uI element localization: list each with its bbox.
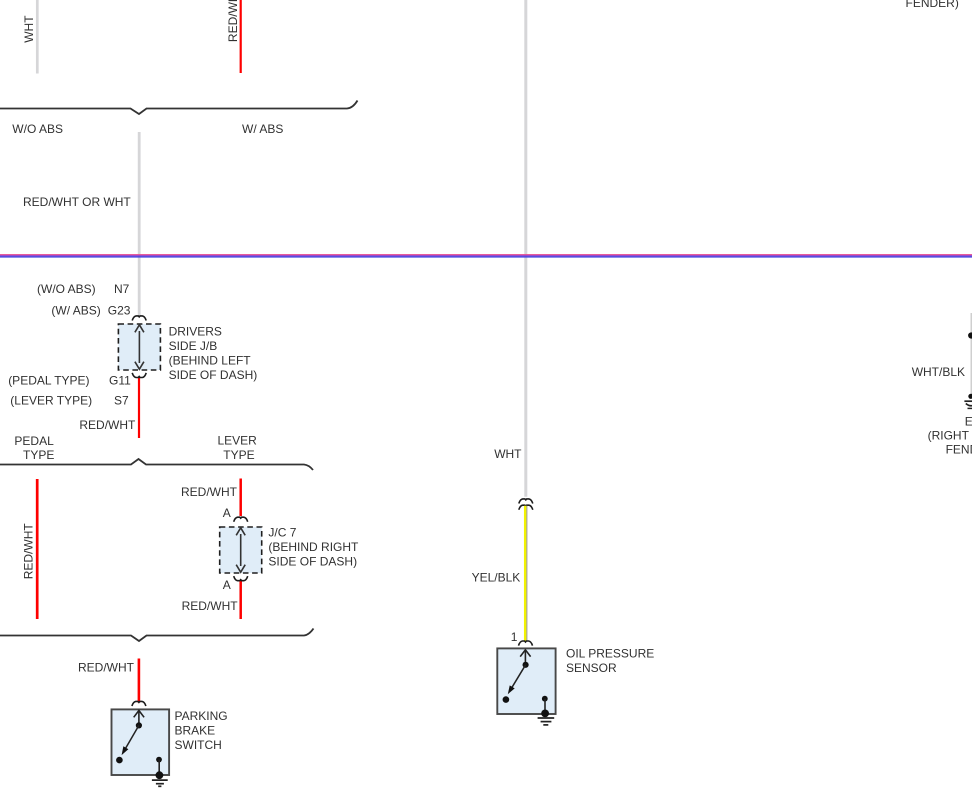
svg-text:SIDE OF DASH): SIDE OF DASH) [268,555,357,569]
junction dot right edge [968,332,972,338]
svg-text:LEVER: LEVER [218,434,258,448]
component PARKING BRAKE SWITCH [112,709,170,775]
svg-text:SENSOR: SENSOR [566,661,617,675]
svg-text:(BEHIND LEFT: (BEHIND LEFT [169,353,252,367]
svg-text:RED/WHT: RED/WHT [78,660,135,674]
svg-text:FENDER): FENDER) [946,443,972,457]
svg-text:TYPE: TYPE [223,448,254,462]
svg-text:BRAKE: BRAKE [175,724,216,738]
label LEVER TYPE [218,434,258,462]
inline connector pair [519,499,533,510]
wire WHT/BLK right edge [971,313,972,394]
wire RED/WHT to J/C 7 [239,479,242,517]
connector arc at J/B bottom [132,373,146,378]
svg-text:S7: S7 [114,394,129,408]
svg-text:SIDE OF DASH): SIDE OF DASH) [169,368,258,382]
wire RED/WHT top [240,0,242,73]
svg-text:RED/WHT: RED/WHT [182,599,239,613]
svg-text:SWITCH: SWITCH [175,738,222,752]
svg-text:(RIGHT FRO: (RIGHT FRO [928,428,972,442]
svg-text:SIDE J/B: SIDE J/B [169,339,218,353]
brace merging pedal/lever branches [0,629,314,642]
ground EB (RIGHT FENDER) [964,394,972,409]
label EB (RIGHT FENDER) [928,414,972,456]
connector arc at J/C 7 top [234,517,248,522]
wire WHT center [524,0,527,497]
connector arc at J/C 7 bottom [234,576,248,581]
label PEDAL TYPE [14,434,54,462]
junction connector J/C 7 [220,527,262,573]
wire RED/WHT OR WHT (gray) [138,132,141,317]
svg-text:G11: G11 [109,374,131,388]
svg-text:N7: N7 [114,282,130,296]
svg-text:RED/WHT: RED/WHT [226,0,240,42]
label DRIVERS SIDE J/B (BEHIND LEFT SIDE OF DASH) [169,324,258,382]
svg-text:WHT/BLK: WHT/BLK [912,365,965,379]
wire YEL/BLK [525,506,527,642]
svg-text:FENDER): FENDER) [906,0,959,10]
connector arc at parking brake switch [132,701,146,706]
wire RED/WHT pedal type (left) [36,479,39,619]
brace splitting PEDAL TYPE / LEVER TYPE [0,459,313,470]
ground at oil pressure sensor [538,710,555,725]
svg-text:(PEDAL TYPE): (PEDAL TYPE) [8,374,89,388]
svg-text:A: A [223,506,231,520]
connector arc at J/B top [132,316,146,321]
svg-text:A: A [223,578,231,592]
svg-text:PEDAL: PEDAL [14,434,54,448]
wire RED/WHT below J/B [138,376,140,438]
svg-text:(W/ ABS): (W/ ABS) [51,304,100,318]
wire RED/WHT to parking brake switch [138,659,141,703]
svg-text:WHT: WHT [494,447,522,461]
svg-text:(LEVER TYPE): (LEVER TYPE) [10,394,92,408]
connector arc at oil pressure sensor [519,641,533,646]
wire WHT top-left [36,0,39,74]
svg-text:(W/O ABS): (W/O ABS) [37,282,96,296]
svg-text:OIL PRESSURE: OIL PRESSURE [566,647,654,661]
junction block DRIVERS SIDE J/B [118,324,160,370]
svg-text:RED/WHT: RED/WHT [181,485,238,499]
svg-text:PARKING: PARKING [175,709,228,723]
svg-text:RED/WHT: RED/WHT [22,523,36,580]
svg-text:W/ ABS: W/ ABS [242,122,283,136]
svg-text:DRIVERS: DRIVERS [169,324,222,338]
label J/C 7 (BEHIND RIGHT SIDE OF DASH) [268,526,359,569]
svg-text:1: 1 [511,630,518,644]
svg-text:(BEHIND RIGHT: (BEHIND RIGHT [268,540,359,554]
component OIL PRESSURE SENSOR [497,648,555,714]
svg-text:RED/WHT: RED/WHT [79,418,136,432]
svg-text:RED/WHT OR WHT: RED/WHT OR WHT [23,195,131,209]
svg-text:TYPE: TYPE [23,448,54,462]
svg-text:EB: EB [965,414,972,428]
svg-text:W/O ABS: W/O ABS [12,122,63,136]
wire RED/WHT below J/C 7 [239,581,242,619]
label PARKING BRAKE SWITCH [175,709,228,752]
brace merging W/O ABS and W/ ABS branches [0,101,358,115]
svg-text:YEL/BLK: YEL/BLK [472,571,521,585]
label OIL PRESSURE SENSOR [566,647,654,676]
page separator line (purple) [0,254,972,255]
svg-text:J/C 7: J/C 7 [268,526,296,540]
svg-text:WHT: WHT [22,15,36,43]
svg-text:G23: G23 [108,304,131,318]
ground at parking brake switch [152,771,168,786]
